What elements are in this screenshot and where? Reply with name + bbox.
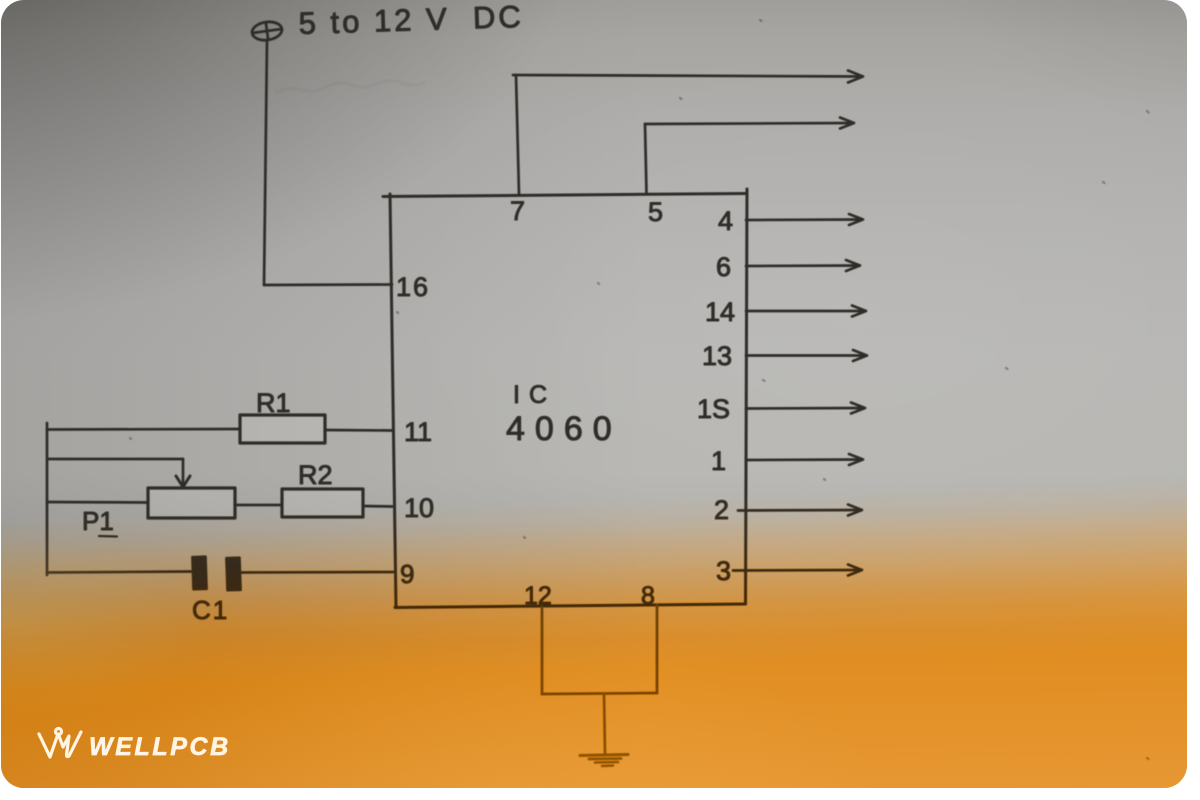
wire Vcc rail vertical: [264, 41, 267, 285]
wire pin5: [645, 124, 647, 194]
logo W mark kink and right V: [59, 732, 81, 757]
wire gnd joining: [542, 693, 657, 694]
wire wiper drop: [182, 459, 185, 483]
wire rail to R1: [47, 428, 240, 431]
wire arrow out top2: [645, 123, 853, 124]
wire arrow pin13: [746, 354, 866, 357]
wire arrow pin14: [746, 310, 865, 313]
wire rail to wiper branch: [49, 458, 183, 461]
wire Vcc to pin16: [264, 283, 392, 286]
wire rail to C1: [47, 572, 193, 573]
logo W mark left V: [39, 734, 58, 757]
resistor R2: [282, 489, 363, 517]
potentiometer P1: [148, 488, 235, 518]
logo W mark circle tip: [56, 729, 62, 735]
ground symbol: [580, 755, 628, 756]
resistor R1: [240, 415, 325, 443]
wire R2 to pin10: [363, 505, 392, 508]
wire R1 to pin11: [325, 429, 392, 432]
wire arrow pin4: [746, 218, 862, 221]
wire arrow out top1: [513, 75, 862, 77]
battery + symbol B1: [251, 20, 283, 42]
wire arrow pin2: [738, 509, 861, 512]
wire pin12 down: [541, 607, 544, 694]
faint eraser scribble: [276, 81, 424, 92]
wire arrow pin3: [733, 569, 861, 572]
wire pin8 down: [656, 605, 659, 693]
wire arrow pin15: [746, 407, 864, 410]
wire pin7: [516, 75, 519, 194]
speck dots: [130, 20, 1149, 759]
wire gnd stem: [604, 694, 605, 755]
wire arrow pin1: [746, 458, 862, 461]
IC U1 4060 body: [383, 194, 747, 197]
capacitor C1 plates: [192, 557, 206, 589]
wire C1 to pin9: [238, 571, 393, 574]
wire rail to P1: [47, 501, 148, 504]
wiper arrowhead: [176, 476, 190, 487]
wire arrow pin6: [746, 264, 859, 267]
wire left rail: [46, 423, 49, 575]
wire P1 to R2: [235, 504, 282, 507]
